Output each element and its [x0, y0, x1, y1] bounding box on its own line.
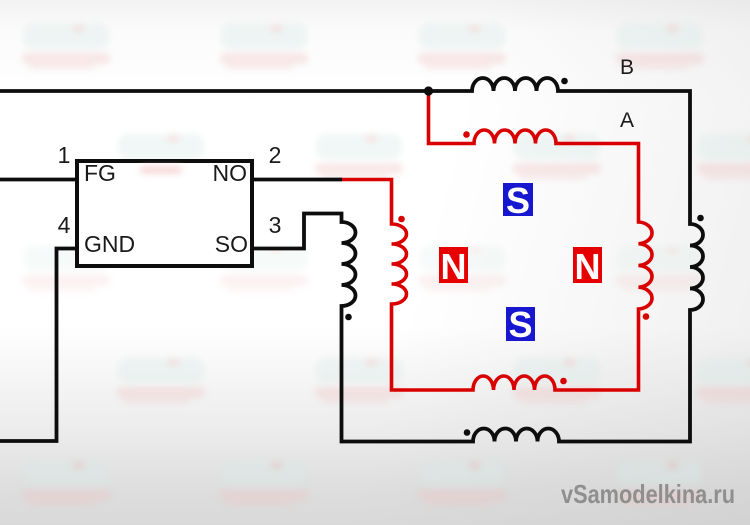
node: polarity dot of right black coil	[697, 215, 704, 222]
node: polarity dot of top black coil B	[561, 78, 568, 85]
svg-text:FG: FG	[84, 160, 116, 186]
svg-text:4: 4	[58, 212, 71, 238]
node: polarity dot of right red coil	[643, 313, 650, 320]
svg-text:S: S	[506, 180, 530, 221]
svg-text:2: 2	[269, 142, 282, 168]
wire: GND (pin 4) return to left edge	[0, 249, 79, 442]
svg-text:B: B	[620, 56, 634, 79]
wire: FG (pin 1) lead to left edge	[0, 178, 79, 182]
svg-text:SO: SO	[215, 231, 248, 257]
svg-text:N: N	[575, 246, 601, 287]
node: polarity dot of left red coil	[398, 216, 405, 223]
magnet pole N (right)	[573, 246, 602, 287]
magnet pole S (top)	[503, 180, 533, 221]
svg-text:N: N	[441, 246, 467, 287]
magnet pole S (bottom)	[506, 304, 535, 345]
svg-text:S: S	[508, 304, 532, 345]
magnet pole N (left)	[439, 246, 468, 287]
svg-text:GND: GND	[84, 231, 135, 257]
node: polarity dot of top red coil A	[463, 131, 470, 138]
node: polarity dot of bottom black coil	[464, 429, 471, 436]
node: polarity dot of left black stator coil	[345, 314, 352, 321]
svg-text:vSamodelkina.ru: vSamodelkina.ru	[561, 479, 735, 509]
op-amp U1: hall sensor IC body	[77, 161, 252, 266]
svg-text:1: 1	[58, 142, 71, 168]
svg-text:3: 3	[269, 212, 282, 238]
wire: phase-A red loop from pin 2 (NO) with four rotor coils	[341, 92, 652, 391]
svg-text:NO: NO	[213, 160, 248, 186]
wire: phase-B loop (top bus, right side, bottom bus) with stator coils	[0, 78, 703, 442]
node: junction of red phase-A tap on top bus	[424, 86, 433, 95]
wire: NO (pin 2) black lead segment	[250, 178, 342, 182]
node: polarity dot of bottom red coil	[560, 378, 567, 385]
svg-text:A: A	[620, 109, 634, 132]
